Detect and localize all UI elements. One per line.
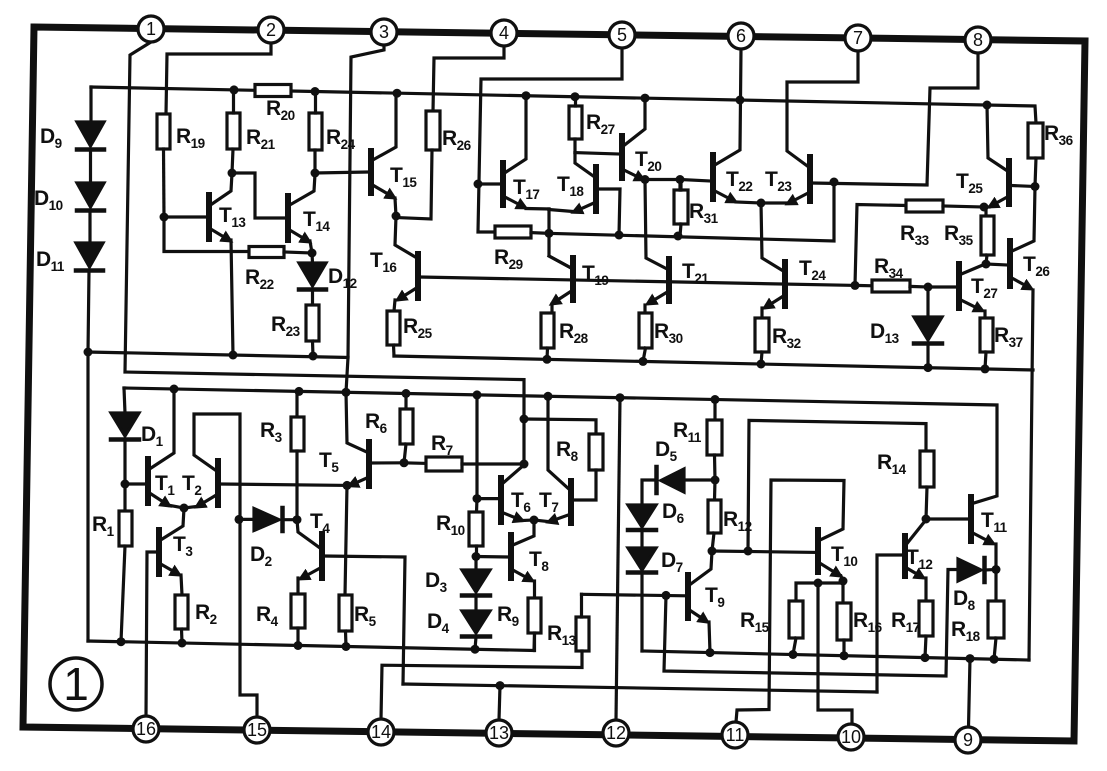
wire: left vertical joining left rail to bottom rail (86, 352, 89, 641)
diode D2 (240, 508, 297, 531)
pin 2 (258, 17, 284, 43)
pin 3 (371, 19, 397, 45)
pin 10 (838, 724, 864, 750)
diode D5 (642, 467, 715, 505)
wire: pin 4 riser to R26 top (433, 46, 504, 111)
wire: lower-half bottom rail (88, 634, 535, 651)
wire: T6/T7 emitters node down to T8 collector (513, 520, 534, 545)
wire: pin 3 riser down to left rail and lower rail (346, 45, 384, 392)
transistor T1 (125, 389, 184, 508)
resistor R20 (in series with rail) (255, 85, 291, 97)
pin 14 (368, 719, 394, 745)
pin 4 (491, 20, 517, 46)
resistor R6 (400, 394, 413, 463)
svg-text:3: 3 (379, 22, 389, 42)
wire: loop from line up over to R14 (748, 420, 926, 551)
pin 12 (603, 720, 629, 746)
wire: T20 emitter down to T21 collector (645, 180, 669, 270)
wire: T20 emitter node to R31 top to T22 base (645, 180, 710, 191)
resistor R15 (789, 601, 803, 655)
wire: R27 bottom to T20 base (575, 153, 619, 154)
wire: common base line T16-T19-T21-T24 (420, 277, 855, 285)
resistor R23 (306, 305, 319, 356)
transistor T15 (371, 93, 396, 216)
wire: R34 to T27 base (928, 285, 956, 288)
transistor T25 (984, 105, 1035, 207)
resistor R2 (175, 595, 188, 643)
resistor R8 (589, 434, 603, 470)
wire: T13 collector to T14 base link (232, 173, 285, 218)
wire: T9 collector / R12 / T10 base line (712, 551, 816, 552)
pin 6 (728, 23, 754, 49)
resistor R37 (980, 318, 993, 369)
wire: T9 base drop and cross line to D8 anode (664, 570, 958, 677)
wire: T6 base column from rail to R10 (475, 395, 479, 512)
pin 9 (955, 727, 981, 753)
diode D3 (462, 557, 490, 612)
resistor R12 (708, 480, 721, 551)
transistor T21 (645, 259, 669, 313)
transistor T20 (622, 98, 645, 179)
resistor R18 (988, 570, 1004, 660)
diode D1 (111, 388, 139, 484)
wire: T10 emitter node to R15 top and pin 10 riser (796, 583, 852, 724)
svg-text:6: 6 (736, 26, 746, 46)
wire: D9-D11 chain stem from rail (89, 87, 92, 122)
transistor T17 (478, 96, 549, 209)
transistor T18 (549, 153, 620, 235)
transistor T8 (476, 535, 535, 598)
resistor R9 (528, 598, 541, 651)
junction dots top half (230, 85, 239, 94)
wire: pin 12 riser (616, 398, 620, 720)
resistor R13 (381, 594, 589, 719)
resistor R29 (495, 226, 548, 238)
wire: pin-1 line branch to R8 top (524, 419, 596, 434)
transistor T10 (736, 480, 844, 722)
wire: T5 emitter node down to R5 (345, 485, 347, 595)
wire: pin 15 riser from D2 anode node (240, 519, 257, 717)
transistor T6 (477, 464, 534, 522)
svg-text:5: 5 (617, 25, 627, 45)
resistor R30 (639, 313, 652, 361)
svg-text:13: 13 (489, 723, 509, 743)
transistor T13 (164, 173, 233, 355)
pin 15 (244, 717, 270, 743)
figure number mark (circled 1) (50, 658, 102, 710)
svg-text:4: 4 (499, 23, 509, 43)
svg-text:12: 12 (606, 723, 626, 743)
resistor R11 (707, 400, 722, 481)
wire: top supply rail (pin 6 net) (91, 87, 1036, 123)
pin 7 (845, 25, 871, 51)
resistor R16 (837, 603, 851, 656)
resistor R17 (919, 601, 933, 658)
transistor T9 (688, 551, 712, 653)
resistor R27 (569, 97, 582, 153)
wire: T15 emitter node down to T16 collector (395, 216, 417, 258)
resistor R1 (119, 484, 132, 642)
wire: T17/T18 emitters node down to T19 collector (549, 209, 571, 268)
resistor R33 (906, 200, 984, 212)
transistor T14 (288, 174, 315, 253)
transistor T23 (761, 51, 858, 203)
transistor T12 (877, 521, 926, 692)
resistor R34 (855, 280, 928, 292)
resistor R36 (1028, 123, 1043, 187)
transistor T24 (762, 262, 785, 318)
diode D4 (462, 611, 490, 649)
wire: right ground rail of top half (394, 356, 1033, 370)
wire: R24 bottom node to T15 base (315, 172, 367, 173)
pin 11 (722, 722, 748, 748)
transistor T5 (346, 392, 404, 486)
pin 1 (138, 16, 164, 42)
svg-text:10: 10 (841, 727, 861, 747)
wire: left rail (T13/T14 emitter net) (88, 352, 348, 358)
svg-text:11: 11 (726, 725, 745, 745)
diode D10 (77, 183, 104, 243)
resistor R26 (396, 111, 440, 219)
diode D12 (299, 253, 326, 305)
wire: pin 9 riser (969, 659, 971, 727)
transistor T22 (713, 155, 761, 203)
resistor R25 (387, 311, 400, 356)
diode D11 (76, 243, 103, 352)
junction dots lower half (170, 385, 179, 394)
resistor R32 (755, 318, 769, 364)
diode D6 (628, 505, 656, 548)
wire: pin 13 stub (499, 686, 500, 720)
svg-text:2: 2 (266, 20, 276, 40)
resistor R22 and base-feed wire from R19 column (164, 217, 312, 258)
pin 8 (965, 27, 991, 53)
svg-text:1: 1 (63, 658, 89, 710)
svg-text:15: 15 (247, 720, 267, 740)
pin 16 (133, 716, 159, 742)
wire: T22/T23 emitters node down to T24 collector (761, 203, 785, 272)
wire: pin 8 riser to T23/T25 base line (927, 53, 978, 185)
wire: base line dot up to R33 (855, 205, 906, 286)
transistor T19 (549, 256, 573, 313)
resistor R4 (291, 594, 305, 646)
wire: output emitter line (top-half ground net continuation) (642, 651, 1029, 660)
resistor R19 (157, 114, 170, 217)
wire: R29 line to T18 base, R31 bottom, up to T23 base line (548, 182, 834, 241)
resistor R24 (309, 92, 322, 174)
wire: pin 5 riser to T17 base and R29 (478, 48, 622, 232)
diode D9 (77, 122, 104, 183)
transistor T26 (986, 187, 1035, 661)
resistor R10 (469, 512, 483, 557)
svg-text:1: 1 (146, 19, 156, 39)
pin 5 (609, 22, 635, 48)
resistor R31 (674, 180, 688, 237)
diode D13 (914, 287, 942, 368)
transistor T4 (297, 520, 405, 684)
transistor T16 (394, 254, 418, 311)
transistor T11 (926, 497, 996, 570)
svg-text:14: 14 (371, 722, 391, 742)
transistor T2 (184, 414, 347, 519)
svg-text:9: 9 (963, 730, 973, 750)
diode D7 (628, 548, 656, 651)
wire: pin 1 riser down left side and across to T6/T7 collectors (125, 42, 524, 464)
transistor T27 (959, 264, 985, 318)
wire: pin 13 / T4 base line across bottom (403, 684, 877, 692)
transistor T3 (146, 508, 184, 716)
resistor R3 (291, 391, 304, 519)
resistor R35 (981, 207, 994, 264)
svg-text:7: 7 (853, 28, 863, 48)
resistor R7 (404, 457, 525, 471)
diode D8 (958, 558, 996, 582)
resistor R21 (227, 90, 240, 173)
svg-text:8: 8 (973, 30, 983, 50)
wire: pin 2 riser to R19 top (166, 43, 271, 114)
resistor R5 (339, 595, 352, 647)
pin 13 (486, 720, 512, 746)
wire: T23-T25 base line (812, 183, 927, 185)
resistor R28 (541, 313, 554, 359)
svg-text:16: 16 (136, 719, 156, 739)
transistor T7 (534, 396, 596, 523)
resistor R14 (920, 451, 934, 519)
wire: R13 top line to T9 base (pin 11 related net) (582, 594, 686, 596)
wire: pin 6 riser through rail to T22 collector (713, 49, 741, 166)
wire: lower-half top rail (pin 12 net) down to T11 collector (124, 388, 997, 503)
